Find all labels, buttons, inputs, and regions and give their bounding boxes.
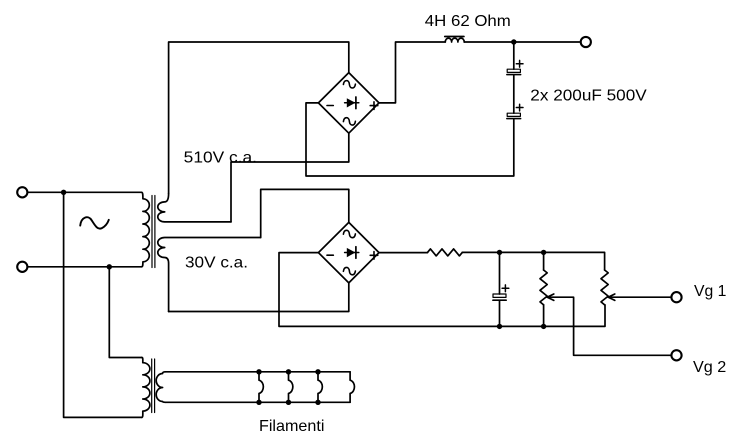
bridge B2 diode lead xyxy=(345,252,359,254)
wire C1 to C2 xyxy=(513,75,515,113)
transformer T1 HV secondary winding xyxy=(158,194,231,222)
bridge B2 diode bar xyxy=(355,247,357,259)
junction dot HV output xyxy=(511,39,516,44)
bridge B2 AC tilde bottom xyxy=(343,267,355,274)
wire bridge2 minus to bottom rail xyxy=(279,253,605,327)
junction dot pot1 bottom xyxy=(541,324,546,329)
svg-text:2x 200uF 500V: 2x 200uF 500V xyxy=(530,88,647,105)
input terminal top xyxy=(17,187,27,197)
capacitor C1 top plate xyxy=(507,69,520,72)
terminal Vg2 xyxy=(671,350,681,360)
transformer T2 core xyxy=(152,359,155,413)
terminal Vg1 xyxy=(671,292,681,302)
bridge B1 diode xyxy=(347,98,356,107)
potentiometer P1 bottom lead xyxy=(543,305,545,327)
wire input top to transformer xyxy=(28,191,141,193)
junction dot cap bottom xyxy=(497,324,502,329)
transformer T2 secondary winding xyxy=(156,372,165,403)
bridge B2 plus xyxy=(370,252,378,260)
wire input bottom to transformer xyxy=(28,266,141,268)
wire bridge1 plus to inductor xyxy=(379,42,445,103)
capacitor C3 bottom plate xyxy=(493,299,506,301)
filament F3 xyxy=(318,372,322,403)
capacitor C3 lead top xyxy=(499,252,501,294)
input terminal bottom xyxy=(17,262,27,272)
junction dot input top xyxy=(61,190,66,195)
capacitor C3 lead bottom xyxy=(499,301,501,326)
potentiometer P1 wiper arrow xyxy=(547,294,554,300)
svg-text:Vg 1: Vg 1 xyxy=(694,283,726,300)
wire inductor to junction xyxy=(464,41,579,43)
inductor L1 bar xyxy=(445,36,464,38)
bridge B1 AC tilde top xyxy=(343,81,355,88)
capacitor C3 plus xyxy=(502,285,509,292)
svg-text:30V c.a.: 30V c.a. xyxy=(185,254,248,271)
bridge B2 diode xyxy=(347,248,356,257)
wire HV top lead up and across xyxy=(169,42,349,194)
filament junction dots bottom xyxy=(256,400,261,405)
bridge B1 diode bar xyxy=(355,97,357,109)
wire P1 wiper to Vg2 xyxy=(547,297,670,355)
capacitor C1 bottom plate xyxy=(507,74,521,76)
capacitor C2 plus xyxy=(516,104,523,111)
wire bridge2 plus to resistor xyxy=(379,252,428,254)
bridge B1 diode lead xyxy=(345,102,359,104)
wire P2 wiper to Vg1 xyxy=(608,296,670,298)
capacitor C2 top plate xyxy=(507,113,520,116)
wire input bottom down to filament primary top xyxy=(109,267,142,358)
bridge B1 minus xyxy=(327,105,333,107)
wire input top down to filament primary bottom xyxy=(64,192,142,417)
bridge rectifier B2 diamond xyxy=(318,222,379,283)
transformer T2 filament primary winding xyxy=(142,358,150,418)
bridge B1 plus xyxy=(370,102,378,110)
transformer T1 primary winding xyxy=(142,192,150,266)
filament F2 xyxy=(289,372,293,403)
capacitor C2 bottom plate xyxy=(507,118,521,120)
svg-text:Filamenti: Filamenti xyxy=(259,418,324,435)
wire HV bottom lead to bridge1 bottom xyxy=(231,133,349,222)
junction dot pot1 top xyxy=(541,250,546,255)
wire 30V bottom lead to bridge2 bottom xyxy=(169,283,349,312)
resistor R1 xyxy=(428,249,463,256)
junction dot cap top xyxy=(497,250,502,255)
wire C2 bottom to bridge1 minus xyxy=(306,103,514,176)
AC mains tilde xyxy=(80,217,109,228)
HV output terminal xyxy=(581,37,591,47)
inductor L1 coil xyxy=(445,38,464,42)
svg-text:4H 62 Ohm: 4H 62 Ohm xyxy=(425,13,511,30)
junction dot input bottom xyxy=(107,264,112,269)
capacitor C1 lead xyxy=(513,42,515,69)
capacitor C1 plus xyxy=(516,60,523,67)
potentiometer P2 body xyxy=(601,270,608,305)
filament top rail xyxy=(166,371,351,373)
filament junction dots top xyxy=(256,369,261,374)
transformer T1 LV 30V secondary winding xyxy=(158,238,261,312)
bridge B2 minus xyxy=(327,254,333,256)
potentiometer P1 body xyxy=(540,270,547,305)
svg-text:Vg 2: Vg 2 xyxy=(693,359,726,376)
capacitor C3 top plate xyxy=(493,294,506,297)
filament bottom rail xyxy=(166,401,351,403)
bridge rectifier B1 diamond xyxy=(318,73,379,134)
transformer T1 core xyxy=(152,196,155,268)
filament F1 xyxy=(259,372,263,403)
potentiometer P1 top lead xyxy=(543,252,545,270)
potentiometer P2 wiper arrow xyxy=(608,294,615,300)
filament F4 end xyxy=(350,372,354,403)
svg-text:510V c.a.: 510V c.a. xyxy=(184,150,257,167)
wire 30V top lead to bridge2 top xyxy=(261,189,349,237)
bridge B2 AC tilde top xyxy=(343,230,355,237)
wire resistor to top rail xyxy=(462,252,604,270)
bridge B1 AC tilde bottom xyxy=(343,118,355,125)
